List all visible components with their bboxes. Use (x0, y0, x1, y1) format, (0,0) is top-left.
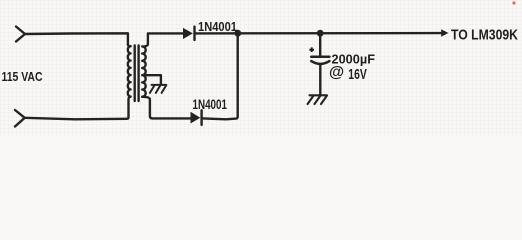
ground (chassis) below capacitor C1 (308, 95, 327, 104)
ground (chassis) at transformer center tap (150, 85, 166, 93)
terminal chevron top-left (115 VAC line A) (16, 27, 25, 42)
capacitor branch wire from node B down to C1 (319, 33, 321, 56)
junction node B (capacitor tap) (317, 30, 324, 37)
transformer T1 primary winding (128, 46, 131, 96)
wire transformer primary bottom to lower-left terminal (25, 97, 131, 120)
terminal chevron bottom-left (115 VAC line B) (15, 110, 25, 127)
diode D1 cathode bar (193, 27, 195, 40)
transformer T1 secondary winding (142, 46, 146, 96)
svg-text:115 VAC: 115 VAC (2, 70, 43, 84)
wire D1 cathode along top rail to output arrow (196, 32, 442, 35)
diode D1 triangle (anode) (183, 28, 193, 39)
wire C1 bottom to ground (319, 65, 321, 95)
diode D2 cathode bar (200, 110, 202, 125)
capacitor C1 curved bottom plate (311, 61, 329, 64)
svg-text:16V: 16V (348, 66, 367, 83)
scan artifact red dot (512, 1, 515, 4)
junction node A (rectifier output) (234, 30, 241, 37)
diode D2 triangle (anode) (191, 112, 201, 124)
svg-text:1N4001: 1N4001 (193, 97, 228, 112)
wire secondary top to diode D1 anode (143, 33, 183, 46)
wire 115 VAC line A to transformer primary top (25, 33, 131, 46)
wire secondary bottom to diode D2 anode (142, 97, 190, 119)
capacitor C1 top plate (311, 56, 329, 59)
wire D2 cathode to riser junction (203, 33, 238, 119)
svg-text:TO LM309K: TO LM309K (451, 27, 518, 43)
transformer T1 core (135, 46, 139, 102)
secondary center tap wire (145, 75, 161, 84)
capacitor C1 polarity plus (309, 47, 314, 52)
svg-text:@: @ (329, 64, 344, 81)
output arrowhead (441, 29, 448, 37)
svg-text:1N4001: 1N4001 (198, 20, 237, 34)
